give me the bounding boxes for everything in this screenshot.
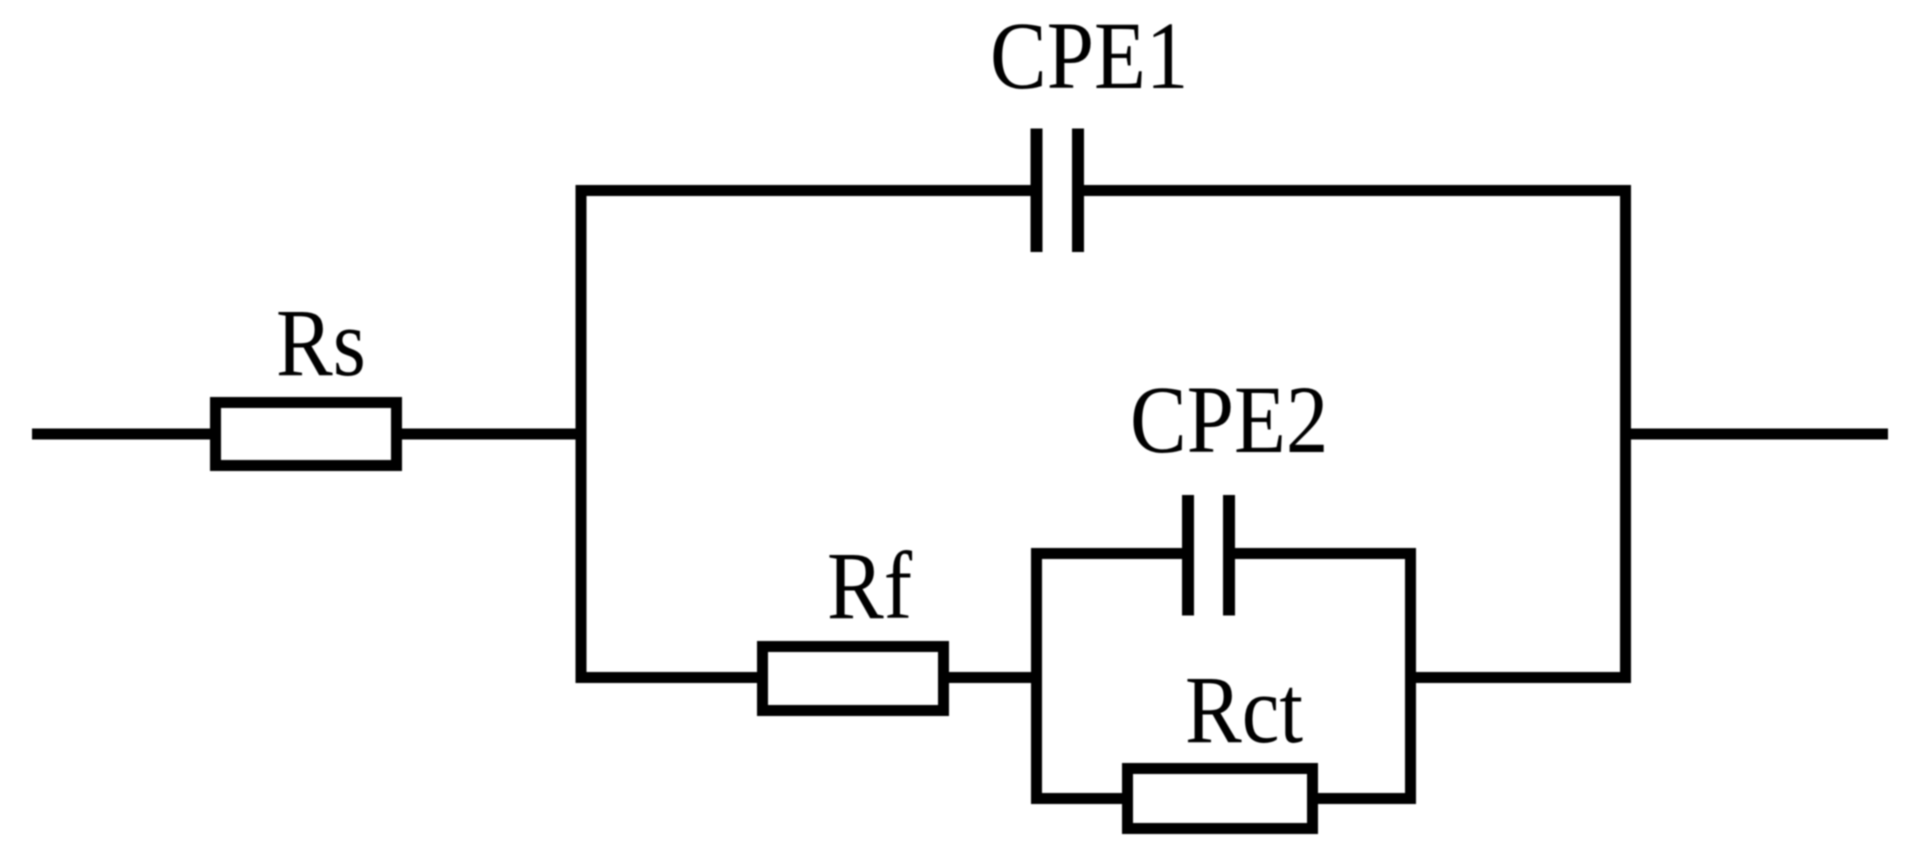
svg-text:CPE1: CPE1 (990, 2, 1188, 109)
svg-text:CPE2: CPE2 (1130, 366, 1328, 473)
svg-text:Rct: Rct (1185, 656, 1303, 763)
svg-text:Rs: Rs (276, 289, 366, 396)
svg-text:Rf: Rf (827, 532, 913, 639)
